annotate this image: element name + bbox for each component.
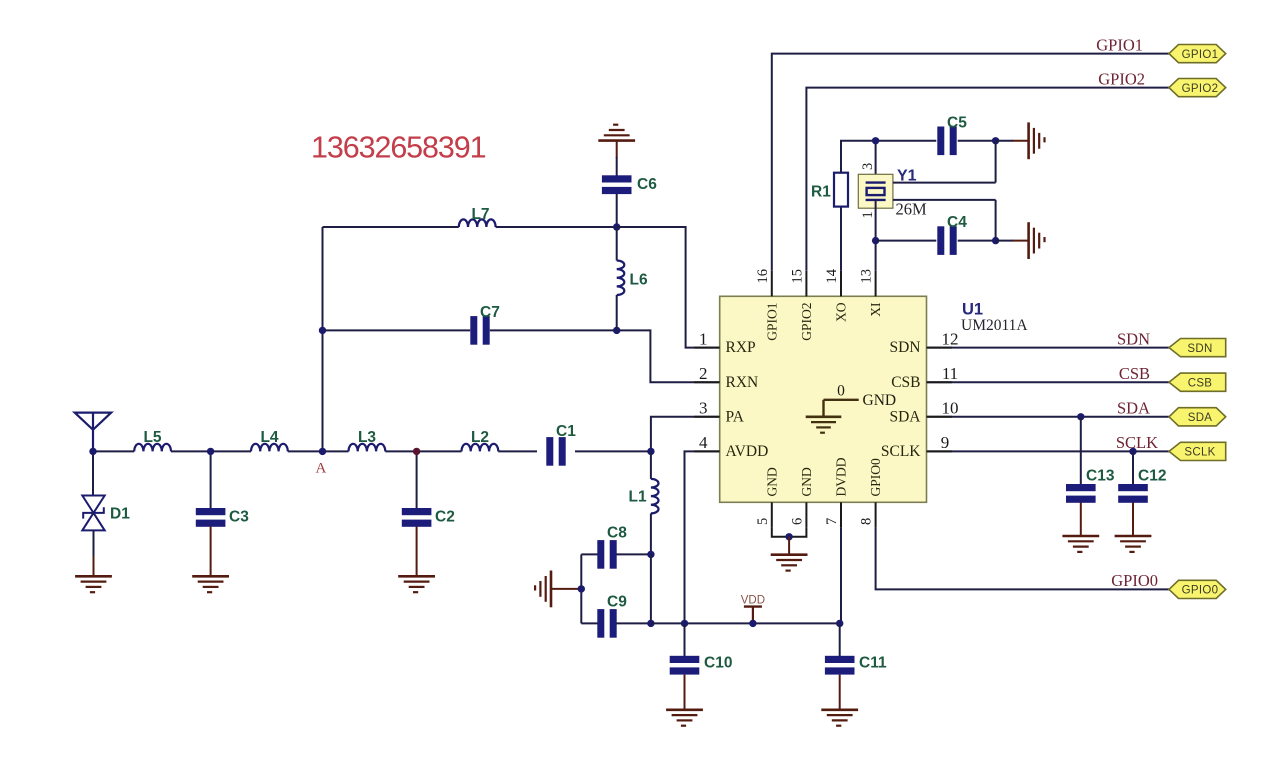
pin 2 name RXN: [726, 374, 759, 391]
junction C4/crystal case: [992, 237, 999, 244]
junction GND pins: [785, 533, 792, 540]
wire SDN pin 12 to port: [927, 347, 1170, 349]
ground at C12: [1115, 536, 1152, 552]
junction C5/crystal case: [992, 137, 999, 144]
wire L6 to C7 row: [616, 295, 618, 330]
pin 2 RXN stub: [694, 381, 720, 383]
svg-text:9: 9: [941, 433, 950, 452]
wire C3 to ground: [210, 526, 212, 576]
svg-text:XO: XO: [834, 302, 849, 322]
op-amp U1 body (UM2011A chip): [720, 296, 927, 502]
ground at C10: [666, 710, 703, 726]
capacitor C10: [670, 655, 733, 675]
ground at C13: [1062, 536, 1099, 552]
wire L2 to C1: [498, 450, 537, 452]
ground at D1: [75, 576, 112, 592]
pin 15 number: [789, 269, 805, 284]
pin 10 SDA stub: [927, 416, 953, 418]
svg-text:L6: L6: [630, 272, 648, 289]
pin 4 name AVDD: [726, 443, 769, 460]
wire C12 to ground: [1132, 502, 1134, 536]
wire C9 left: [581, 622, 598, 624]
wire antenna node to L5: [93, 450, 134, 452]
svg-text:13632658391: 13632658391: [311, 131, 486, 165]
svg-text:SDN: SDN: [1117, 329, 1150, 348]
capacitor C9: [597, 594, 627, 638]
wire L5 to C3 node: [171, 450, 251, 452]
pin 14 number: [824, 268, 840, 283]
chip internal ground symbol GND net 0: [806, 383, 896, 433]
wire XO pin 14 to R1: [840, 207, 842, 271]
svg-text:1: 1: [699, 329, 708, 348]
power symbol VDD: [741, 595, 765, 624]
wire C8 left vertical: [580, 554, 582, 623]
inductor L1: [629, 479, 659, 514]
pin 1 number: [699, 329, 708, 348]
diode D1 (TVS): [82, 496, 130, 531]
wire node to C2: [416, 451, 418, 509]
net label SCLK: [1116, 433, 1158, 452]
net label SDA: [1117, 399, 1150, 418]
svg-text:15: 15: [789, 269, 805, 284]
junction A column / C7 row: [319, 327, 326, 334]
wire C2 to ground: [416, 526, 418, 576]
svg-text:L2: L2: [471, 429, 489, 446]
svg-text:CSB: CSB: [891, 374, 920, 391]
inductor L6: [617, 261, 648, 296]
designator U1: [962, 301, 983, 319]
junction SCLK/C12: [1129, 448, 1136, 455]
svg-text:GPIO2: GPIO2: [1098, 69, 1145, 88]
pin 7 name DVDD: [834, 457, 849, 496]
svg-text:C11: C11: [859, 655, 887, 672]
ground at C5 (right): [1029, 122, 1045, 159]
wire node to C3: [210, 451, 212, 509]
pin 15 GPIO2 stub: [805, 271, 807, 297]
svg-text:SCLK: SCLK: [1116, 433, 1158, 452]
svg-text:C13: C13: [1086, 468, 1115, 485]
capacitor C7: [470, 304, 500, 345]
wire PA node to pin 3: [651, 417, 720, 452]
wire C8 right: [616, 553, 651, 555]
wire L7 to C6 node: [496, 226, 617, 228]
svg-text:C4: C4: [947, 214, 967, 231]
svg-text:GPIO1: GPIO1: [1182, 49, 1219, 61]
net label SDN: [1117, 329, 1150, 348]
junction C6/L7/L6/RXP: [613, 223, 620, 230]
pin 11 number: [942, 364, 958, 383]
pin 3 number: [699, 399, 708, 418]
pin 9 SCLK stub: [927, 450, 953, 452]
pin 12 number: [942, 329, 959, 348]
svg-text:C8: C8: [607, 525, 627, 542]
pin 5 name GND: [764, 467, 779, 496]
pin 7 DVDD stub: [840, 502, 842, 528]
wire GND junction to ground: [788, 537, 790, 555]
pin 4 number: [699, 433, 708, 452]
wire C13 to ground: [1080, 502, 1082, 536]
wire C8 left: [581, 553, 598, 555]
svg-text:1: 1: [860, 211, 876, 218]
svg-text:C3: C3: [229, 509, 249, 526]
svg-text:5: 5: [755, 518, 771, 525]
capacitor C11: [825, 655, 887, 675]
svg-text:GPIO1: GPIO1: [1096, 35, 1143, 54]
svg-text:C1: C1: [556, 423, 576, 440]
svg-text:6: 6: [789, 518, 805, 525]
wire C11 to ground: [839, 675, 841, 710]
pin 10 name SDA: [889, 408, 921, 425]
wire C4 ground stub: [1012, 240, 1029, 242]
pin 9 number: [941, 433, 950, 452]
svg-text:RXP: RXP: [726, 339, 756, 356]
svg-text:L5: L5: [143, 429, 161, 446]
inductor L7: [459, 206, 496, 227]
svg-text:3: 3: [699, 399, 708, 418]
svg-text:C6: C6: [637, 176, 657, 193]
svg-text:GND: GND: [863, 392, 897, 409]
pin 8 GPIO0 stub: [875, 502, 877, 528]
node A junction: [319, 448, 326, 455]
junction C7/L6: [613, 327, 620, 334]
svg-text:SCLK: SCLK: [881, 443, 921, 460]
capacitor C12: [1118, 468, 1166, 503]
pin 3 name PA: [726, 408, 745, 425]
wire C5 to ground node: [958, 140, 996, 142]
junction C8C9 ground: [578, 585, 585, 592]
wire L3 to C2 node: [385, 450, 461, 452]
pin 4 AVDD stub: [694, 450, 720, 452]
wire node A vertical: [322, 227, 324, 451]
inductor L5: [134, 429, 171, 452]
port GPIO2: [1169, 79, 1226, 97]
pin 13 number: [859, 269, 875, 284]
svg-text:SDN: SDN: [1187, 343, 1212, 355]
chip value UM2011A: [961, 317, 1028, 334]
node A label: [316, 461, 327, 477]
capacitor C1: [546, 423, 576, 466]
pin 1 name RXP: [726, 339, 756, 356]
svg-text:GPIO0: GPIO0: [1111, 571, 1158, 590]
ground at C4 (right): [1029, 222, 1045, 259]
svg-text:U1: U1: [962, 301, 983, 319]
svg-text:11: 11: [942, 364, 958, 383]
svg-text:GPIO1: GPIO1: [764, 303, 779, 341]
svg-text:GPIO0: GPIO0: [868, 458, 883, 497]
wire C7 to L6 node: [490, 329, 617, 331]
net label GPIO2: [1098, 69, 1145, 88]
port SDN: [1169, 339, 1226, 357]
wire SCLK to C12: [1132, 451, 1134, 485]
port CSB: [1169, 373, 1226, 391]
svg-text:GND: GND: [764, 467, 779, 496]
net label GPIO0: [1111, 571, 1158, 590]
wire C4 node to ground: [996, 240, 1013, 242]
ground at C3: [192, 576, 229, 592]
junction SDA/C13: [1077, 413, 1084, 420]
wire C5 ground stub: [1012, 140, 1029, 142]
wire crystal pin 1 to bottom rail: [875, 200, 877, 241]
wire D1 ground stub: [93, 556, 95, 576]
wire node A to L7: [323, 226, 459, 228]
pin 5 GND stub: [771, 502, 773, 528]
wire C6 node to RXP pin 1: [617, 227, 720, 348]
svg-text:26M: 26M: [896, 200, 928, 219]
pin 16 GPIO1 stub: [771, 271, 773, 297]
wire C1 to PA node: [575, 450, 651, 452]
inductor L2: [462, 429, 499, 452]
pin 11 name CSB: [891, 374, 920, 391]
wire C6 to L7 node: [616, 194, 618, 227]
junction C9/VDD rail: [647, 620, 654, 627]
junction node antenna/D1: [89, 448, 96, 455]
svg-text:C12: C12: [1138, 468, 1166, 485]
svg-text:3: 3: [860, 163, 876, 170]
wire crystal case pin bottom: [893, 200, 996, 241]
svg-text:A: A: [316, 461, 327, 477]
svg-text:C2: C2: [435, 509, 455, 526]
capacitor C6: [602, 175, 657, 194]
capacitor C2: [402, 508, 455, 527]
svg-text:14: 14: [824, 268, 840, 283]
capacitor C13: [1066, 468, 1115, 503]
svg-text:L1: L1: [629, 489, 647, 506]
pin 7 number: [824, 518, 840, 525]
svg-text:L4: L4: [260, 429, 278, 446]
svg-text:GND: GND: [799, 467, 814, 496]
wire VDD rail: [651, 622, 840, 624]
wire top rail to crystal pin 3: [875, 141, 877, 183]
svg-text:GPIO0: GPIO0: [1182, 585, 1219, 597]
wire node to D1: [92, 451, 94, 495]
svg-text:SDA: SDA: [1188, 412, 1213, 424]
wire C8 node down to C9 node: [650, 554, 652, 623]
pin 6 number: [789, 518, 805, 525]
crystal pin 3 number: [860, 163, 876, 170]
wire GND pins 5 and 6 join: [772, 528, 807, 537]
port SCLK: [1169, 442, 1226, 460]
svg-text:2: 2: [699, 364, 708, 383]
wire C9 right: [616, 622, 651, 624]
svg-text:CSB: CSB: [1188, 377, 1213, 389]
inductor L3: [349, 429, 386, 452]
ground at pins 5 6: [771, 555, 808, 571]
svg-text:4: 4: [699, 433, 708, 452]
svg-text:7: 7: [824, 518, 840, 525]
svg-text:C7: C7: [480, 304, 500, 321]
junction bottom rail / XI: [872, 237, 879, 244]
svg-text:10: 10: [942, 399, 959, 418]
pin 13 XI stub: [875, 271, 877, 297]
junction AVDD/C10/rail: [681, 620, 688, 627]
crystal Y1: [858, 168, 927, 219]
svg-text:AVDD: AVDD: [726, 443, 769, 460]
port GPIO1: [1169, 45, 1226, 63]
wire D1 to ground: [93, 530, 95, 557]
junction VDD/rail: [749, 620, 756, 627]
pin 11 CSB stub: [927, 381, 953, 383]
wire R1 to top rail: [841, 141, 936, 173]
junction DVDD/C11/rail: [836, 620, 843, 627]
wire SDA pin 10 to port: [927, 416, 1170, 418]
pin 14 XO stub: [840, 271, 842, 297]
inductor L4: [251, 429, 288, 452]
svg-text:GPIO2: GPIO2: [799, 303, 814, 341]
crystal pin 1 number: [860, 211, 876, 218]
wire node to L6: [616, 227, 618, 261]
pin 10 number: [942, 399, 959, 418]
wire CSB pin 11 to port: [927, 381, 1170, 383]
svg-text:SDA: SDA: [1117, 399, 1150, 418]
svg-text:12: 12: [942, 329, 959, 348]
junction main line / PA / L1: [647, 448, 654, 455]
svg-text:GPIO2: GPIO2: [1182, 83, 1219, 95]
wire L1 to C8 node: [650, 513, 652, 554]
pin 6 GND stub: [805, 502, 807, 528]
port GPIO0: [1169, 580, 1226, 598]
pin 9 name SCLK: [881, 443, 921, 460]
wire XI pin 13 to bottom rail: [875, 241, 877, 271]
svg-text:8: 8: [859, 518, 875, 525]
junction node L5/C3: [207, 448, 214, 455]
pin 13 name XI: [868, 302, 883, 317]
svg-text:DVDD: DVDD: [834, 457, 849, 496]
pin 3 PA stub: [694, 416, 720, 418]
pin 6 name GND: [799, 467, 814, 496]
wire GPIO0 pin 8 to port: [876, 528, 1169, 590]
svg-text:R1: R1: [811, 184, 831, 201]
capacitor C5: [937, 115, 967, 156]
wire node A to C7: [323, 329, 471, 331]
svg-text:16: 16: [755, 269, 771, 284]
wire crystal case pin top: [893, 141, 996, 183]
wire C5 node to ground: [996, 140, 1013, 142]
pin 16 name GPIO1: [764, 303, 779, 341]
pin 2 number: [699, 364, 708, 383]
svg-text:SDA: SDA: [889, 408, 921, 425]
net label GPIO1: [1096, 35, 1143, 54]
svg-text:C5: C5: [947, 115, 967, 132]
wire rail to C11: [839, 623, 841, 656]
ground at C6 (inverted): [598, 125, 635, 141]
svg-text:VDD: VDD: [741, 595, 765, 607]
wire GPIO1 pin 16 to port: [772, 54, 1169, 271]
wire ground to C6 maroon: [616, 141, 618, 158]
wire rail to C10: [684, 623, 686, 656]
svg-text:D1: D1: [110, 506, 130, 523]
svg-text:L7: L7: [471, 206, 489, 223]
port SDA: [1169, 408, 1226, 426]
svg-text:L3: L3: [358, 429, 376, 446]
pin 8 name GPIO0: [868, 458, 883, 497]
antenna E1: [75, 413, 112, 452]
wire PA node to L1: [650, 451, 652, 479]
junction L1/C8: [647, 551, 654, 558]
svg-text:PA: PA: [726, 408, 745, 425]
svg-text:13: 13: [859, 269, 875, 284]
capacitor C4: [937, 214, 967, 255]
pin 1 RXP stub: [694, 347, 720, 349]
svg-text:CSB: CSB: [1119, 364, 1150, 383]
svg-text:SCLK: SCLK: [1184, 447, 1215, 459]
capacitor C3: [196, 508, 249, 527]
ground at C8 C9 (left): [535, 571, 551, 608]
wire SDA to C13: [1080, 417, 1082, 485]
pin 5 number: [755, 518, 771, 525]
wire L4 to node A: [288, 450, 349, 452]
svg-text:RXN: RXN: [726, 374, 759, 391]
wire SCLK pin 9 to port: [927, 450, 1170, 452]
net label CSB: [1119, 364, 1150, 383]
svg-text:UM2011A: UM2011A: [961, 317, 1028, 334]
wire GPIO2 pin 15 to port: [806, 88, 1169, 271]
svg-text:SDN: SDN: [889, 339, 920, 356]
pin 16 number: [755, 269, 771, 284]
pin 15 name GPIO2: [799, 303, 814, 341]
svg-text:XI: XI: [868, 302, 883, 317]
ground at C11: [821, 710, 858, 726]
svg-text:C9: C9: [607, 594, 627, 611]
ground at C2: [398, 576, 435, 592]
wire C4 to ground node: [958, 240, 996, 242]
junction node L3/C2 (red): [413, 448, 420, 455]
wire C10 to ground: [684, 675, 686, 710]
wire ground to C6: [616, 157, 618, 176]
watermark text 13632658391: [311, 131, 486, 165]
svg-text:0: 0: [837, 383, 845, 400]
pin 14 name XO: [834, 302, 849, 322]
pin 12 name SDN: [889, 339, 920, 356]
pin 8 number: [859, 518, 875, 525]
svg-text:C10: C10: [704, 655, 732, 672]
capacitor C8: [597, 525, 627, 569]
wire AVDD pin 4 down to rail: [685, 451, 720, 623]
wire C7 row to RXN pin 2: [617, 330, 720, 382]
wire bottom rail to C4: [876, 240, 937, 242]
junction top rail / XI column: [872, 137, 879, 144]
wire DVDD pin 7 to rail: [840, 528, 842, 624]
pin 12 SDN stub: [927, 347, 953, 349]
resistor R1: [811, 173, 848, 207]
wire ground to C8C9 maroon: [551, 588, 581, 590]
